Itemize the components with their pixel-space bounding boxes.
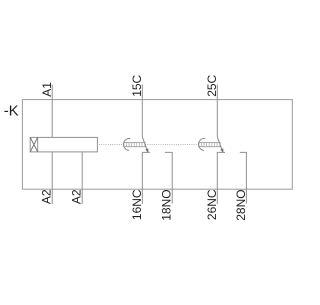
wire A1 xyxy=(51,85,53,138)
coil K1 body xyxy=(30,137,97,152)
contact NO pad + wire 18NO xyxy=(165,152,172,203)
actuator arc 2 xyxy=(199,138,206,150)
wire A2 second xyxy=(81,152,83,204)
coil X-box divider xyxy=(37,137,39,152)
wire 25C xyxy=(216,85,218,137)
wire 15C xyxy=(141,85,143,137)
actuator slide bar 1 xyxy=(124,143,145,147)
svg-text:25C: 25C xyxy=(205,74,219,96)
wire A2 first xyxy=(51,152,53,204)
contact blade 2 arrowhead xyxy=(220,148,223,153)
svg-text:16NC: 16NC xyxy=(130,189,144,220)
svg-text:A1: A1 xyxy=(40,82,54,97)
svg-text:15C: 15C xyxy=(130,74,144,96)
svg-text:A2: A2 xyxy=(70,189,84,204)
svg-text:28NO: 28NO xyxy=(234,189,248,220)
actuator slide bar 2 xyxy=(199,143,220,147)
actuator arc 1 xyxy=(124,138,131,150)
coil X diagonal 2 xyxy=(30,137,38,152)
contact blade 1 arrowhead xyxy=(145,148,148,153)
coil X diagonal 1 xyxy=(30,137,38,152)
contact NC pad + wire 26NC xyxy=(217,152,225,204)
svg-text:A2: A2 xyxy=(40,189,54,204)
contact blade 2 xyxy=(217,137,223,153)
svg-text:18NO: 18NO xyxy=(160,189,174,220)
mechanical linkage dotted line xyxy=(99,144,220,146)
relay outline box xyxy=(22,100,292,190)
svg-text:26NC: 26NC xyxy=(205,189,219,220)
svg-text:-K: -K xyxy=(4,102,19,119)
contact blade 1 xyxy=(142,137,148,153)
contact NO pad + wire 28NO xyxy=(240,152,247,203)
contact NC pad + wire 16NC xyxy=(142,152,150,204)
